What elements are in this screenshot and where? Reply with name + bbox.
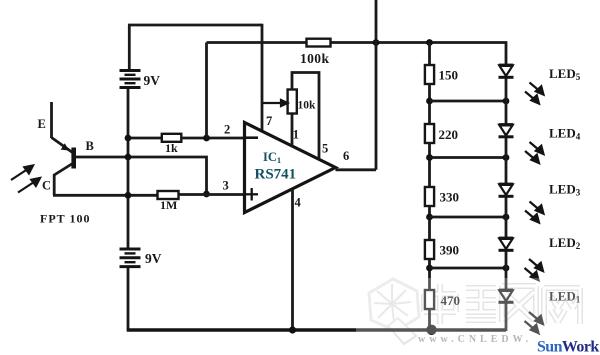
resistor R7 330 bbox=[425, 187, 434, 206]
watermark: outlined glyph 3 bbox=[502, 286, 536, 322]
wire: ladder left rail segment 3 bbox=[428, 143, 431, 188]
wire: rung 4 bbox=[430, 267, 507, 270]
junction dot: rail at rung 4 bbox=[426, 265, 433, 272]
svg-text:5: 5 bbox=[322, 142, 328, 156]
svg-text:9V: 9V bbox=[144, 73, 161, 88]
junction dot: base corner joins pin3 wire bbox=[203, 191, 210, 198]
svg-text:7: 7 bbox=[266, 114, 272, 128]
svg-text:9V: 9V bbox=[145, 251, 162, 266]
wire: ladder left rail segment 6 to ground rail bbox=[428, 309, 431, 331]
junction dot: LED column at rung 1 bbox=[503, 98, 510, 105]
svg-text:RS741: RS741 bbox=[255, 167, 297, 183]
junction dot: pin 2 wire on left rail bbox=[125, 135, 132, 142]
watermark: hexagon logo with starburst bbox=[369, 279, 419, 344]
wire: LED column segment D5 to rung1 bbox=[505, 79, 508, 125]
wire: top supply rail from battery B1 to pin 7 drop bbox=[128, 24, 262, 27]
wire: LED column segment D1 down to ground rail end bbox=[505, 304, 508, 332]
wire: LED column segment D2 to rung4 and below bbox=[505, 252, 508, 291]
emission arrows of LED3 bbox=[525, 202, 544, 223]
LED D5 bbox=[499, 65, 514, 77]
op-amp minus sign (pin 2 input) bbox=[246, 136, 258, 139]
svg-text:1M: 1M bbox=[160, 198, 177, 212]
wire: pin 1 vertical (10k bottom to op-amp top edge) bbox=[291, 112, 294, 147]
phototransistor Q1: base bar bbox=[71, 148, 76, 169]
svg-text:B: B bbox=[86, 139, 94, 153]
wire: bottom ground rail bbox=[127, 328, 506, 331]
LED D2 bbox=[499, 238, 514, 250]
wire: left rail bottom segment (battery B2 down to ground rail) bbox=[127, 268, 130, 330]
phototransistor Q1 FPT100: emitter lead vertical bbox=[50, 102, 53, 138]
emission arrows of LED5 bbox=[525, 83, 544, 104]
svg-text:FPT 100: FPT 100 bbox=[40, 212, 90, 226]
wiper arrow from pin 7 line into 10k bbox=[262, 100, 288, 106]
svg-text:220: 220 bbox=[439, 127, 459, 142]
battery B2 9V bbox=[120, 249, 141, 267]
wire: left rail middle segment (battery B1 to battery B2) bbox=[127, 89, 130, 248]
resistor R6 220 bbox=[425, 124, 434, 143]
wire: LED column segment D3 to rung3 and below bbox=[505, 198, 508, 239]
svg-text:150: 150 bbox=[439, 68, 459, 83]
light arrow 1 into phototransistor bbox=[11, 166, 33, 181]
svg-text:390: 390 bbox=[440, 243, 460, 258]
phototransistor Q1: collector diagonal bbox=[54, 164, 72, 176]
watermark veil over bottom-right corner bbox=[356, 278, 600, 334]
junction dot: feedback vertical joins pin 2 wire bbox=[203, 135, 210, 142]
wire: 10k top loop to pin 5 (up, over, down to op-amp edge) bbox=[292, 73, 319, 160]
svg-text:IC1: IC1 bbox=[263, 150, 281, 165]
svg-text:330: 330 bbox=[440, 190, 460, 205]
watermark: outlined glyph 1 bbox=[424, 284, 456, 324]
resistor R3 1M bbox=[158, 191, 179, 199]
wire: ladder left rail segment 4 bbox=[428, 206, 431, 241]
svg-text:E: E bbox=[38, 117, 46, 131]
wire: feedback vertical (pin 2 node up to 100k wire) bbox=[205, 43, 208, 139]
svg-text:2: 2 bbox=[224, 123, 230, 137]
svg-text:C: C bbox=[42, 179, 51, 193]
op-amp plus sign (pin 3 input) bbox=[246, 188, 259, 201]
svg-text:10k: 10k bbox=[298, 100, 317, 112]
resistor R5 150 bbox=[425, 65, 434, 84]
wire: rung 2 bbox=[430, 156, 507, 159]
junction dot: rail at rung 1 bbox=[426, 98, 433, 105]
wire: op-amp output from tip to output vertical bbox=[336, 168, 377, 171]
wire: rung 1 bbox=[430, 100, 507, 103]
junction dot: rail at rung 3 bbox=[426, 214, 433, 221]
junction dot: pin 4 on ground rail bbox=[289, 326, 296, 333]
phototransistor Q1: emitter diagonal bbox=[52, 138, 73, 153]
LED D4 bbox=[499, 125, 514, 137]
watermark: outlined glyph 4 bbox=[544, 288, 580, 324]
resistor R2 100k bbox=[307, 39, 331, 47]
phototransistor Q1: collector lead vertical bbox=[53, 174, 56, 195]
svg-text:1: 1 bbox=[293, 128, 299, 142]
phototransistor Q1: emitter arrowhead bbox=[61, 143, 69, 150]
resistor R8 390 bbox=[425, 240, 434, 259]
wire: base wire from Q1 to corner bbox=[75, 157, 207, 194]
svg-text:4: 4 bbox=[295, 196, 302, 210]
junction dot: LED column at rung 2 bbox=[503, 154, 510, 161]
svg-text:3: 3 bbox=[223, 179, 229, 193]
wire: pin 3 wire right part (1M to op-amp non-inverting input) bbox=[179, 193, 247, 196]
wire: ladder left rail segment 5 bbox=[428, 259, 431, 291]
emission arrows of LED4 bbox=[525, 142, 544, 163]
wire: pin 2 wire right part (1k to op-amp inverting input) bbox=[181, 137, 246, 140]
wire: pin 2 wire left part (rail to 1k) bbox=[128, 137, 162, 140]
svg-text:LED2: LED2 bbox=[549, 235, 581, 251]
wire: top wire right part (100k to LED column corner) bbox=[331, 43, 507, 66]
wire: collector / pin 3 wire left part (C lead to 1M) bbox=[53, 194, 158, 197]
svg-text:SunWork: SunWork bbox=[537, 339, 599, 355]
emission arrows of LED1 bbox=[525, 312, 544, 333]
junction dot: LED column at rung 4 bbox=[503, 265, 510, 272]
junction dot: LED column at rung 3 bbox=[503, 214, 510, 221]
light arrow 2 into phototransistor bbox=[18, 178, 40, 193]
wire: feedback top wire left part (corner to 100k) bbox=[207, 41, 308, 44]
svg-text:6: 6 bbox=[343, 149, 349, 163]
wire: LED column segment D4 to rung2 and below bbox=[505, 138, 508, 184]
LED D1 bbox=[499, 290, 514, 302]
watermark: outlined glyph 2 bbox=[466, 288, 496, 320]
wire: ladder left rail segment 2 bbox=[428, 84, 431, 125]
svg-text:100k: 100k bbox=[300, 51, 329, 66]
emission arrows of LED2 bbox=[525, 259, 544, 280]
junction dot: pin3 wire on left rail bbox=[125, 192, 132, 199]
junction dot: output vertical on 100k wire bbox=[373, 39, 380, 46]
svg-text:LED4: LED4 bbox=[549, 126, 581, 142]
wire: pin 4 vertical down to ground rail bbox=[291, 189, 294, 330]
wire: ladder left rail segment 1 bbox=[428, 43, 431, 66]
junction dot: rail at rung 2 bbox=[426, 154, 433, 161]
wire: pin 7 vertical drop from top rail to op-amp top edge bbox=[261, 24, 264, 131]
wire: left rail top segment (top rail corner down to battery B1) bbox=[128, 25, 131, 70]
resistor R4 10k (offset pot) bbox=[288, 90, 297, 114]
svg-text:LED3: LED3 bbox=[549, 182, 581, 198]
battery B1 9V bbox=[120, 71, 141, 88]
svg-text:LED5: LED5 bbox=[549, 66, 581, 82]
resistor R9 470 bbox=[425, 290, 434, 309]
resistor R1 1k bbox=[162, 134, 182, 142]
wire: rung 3 bbox=[430, 216, 507, 219]
LED D3 bbox=[499, 184, 514, 196]
junction dot: base wire on left rail bbox=[125, 154, 132, 161]
junction dot: ladder rail on 100k wire bbox=[426, 39, 433, 46]
op-amp U1 triangle bbox=[245, 123, 336, 213]
svg-text:1k: 1k bbox=[165, 141, 178, 155]
junction dot: ladder rail on ground rail (large blob) bbox=[426, 325, 436, 335]
svg-text:www.CNLEDW.: www.CNLEDW. bbox=[418, 334, 532, 345]
wire: output vertical running to top edge of image bbox=[375, 0, 378, 170]
